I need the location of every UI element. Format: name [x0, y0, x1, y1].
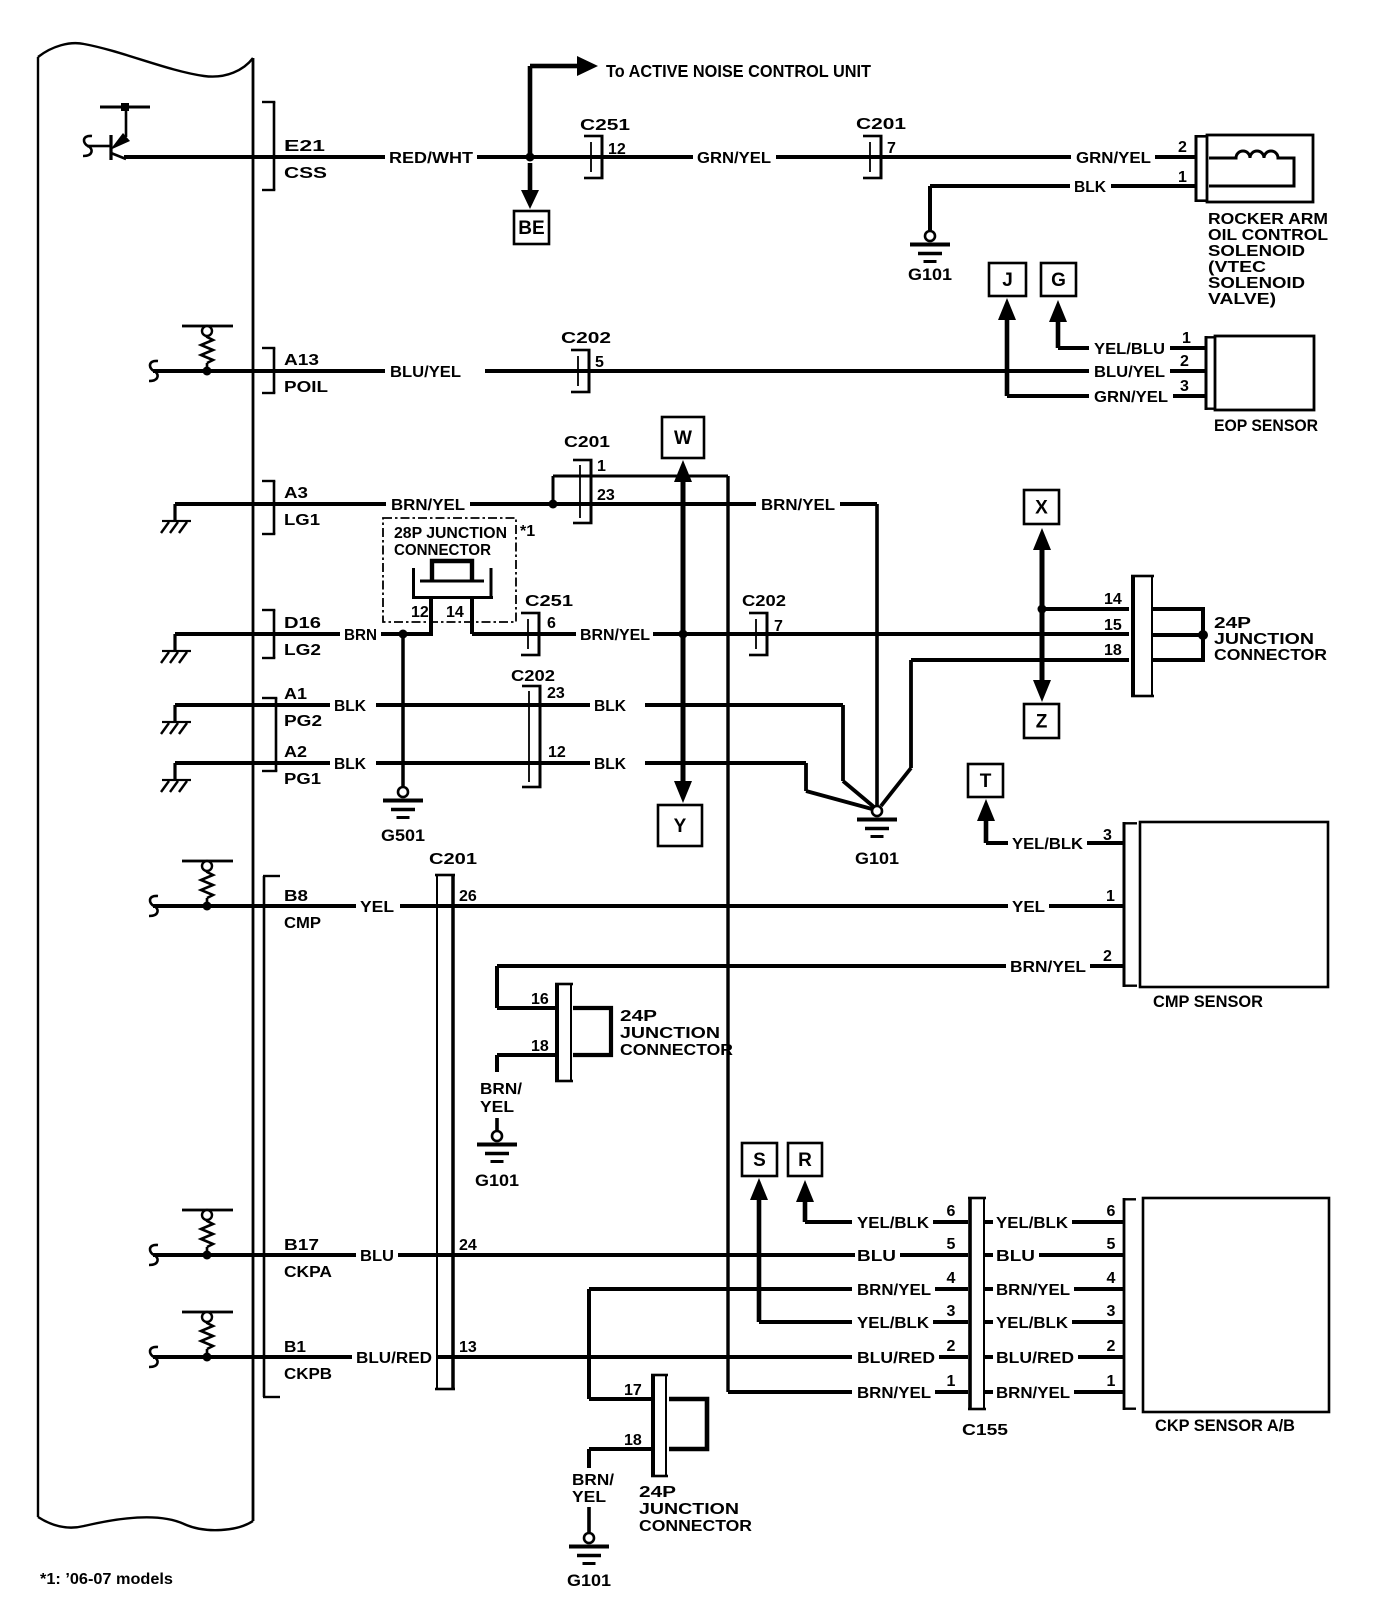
wire BRN/YEL to CMP pin 2 — [497, 959, 1124, 976]
ground G101 (mid) — [475, 1131, 519, 1190]
wire BRN to junction — [381, 632, 433, 636]
svg-text:C201: C201 — [564, 434, 610, 451]
svg-text:LG1: LG1 — [284, 512, 320, 529]
svg-text:1: 1 — [1107, 1373, 1116, 1390]
wire BRN/YEL to corner — [470, 502, 756, 506]
svg-text:3: 3 — [1107, 1303, 1116, 1320]
pin label A2 — [284, 744, 307, 761]
label To ACTIVE NOISE CONTROL UNIT — [606, 61, 871, 81]
svg-text:PG2: PG2 — [284, 713, 322, 730]
wire label BLU/YEL 2 — [1094, 364, 1165, 381]
pin number 15 (24P) — [1104, 617, 1122, 634]
pin number 18 (24P) — [1104, 642, 1122, 659]
pin number 23 (C202) — [547, 685, 565, 702]
wire B1 BLU/RED — [153, 1355, 352, 1359]
svg-text:EOP SENSOR: EOP SENSOR — [1214, 416, 1318, 435]
pin label A1 — [284, 686, 307, 703]
wire D16 BRN — [253, 632, 340, 636]
svg-text:GRN/YEL: GRN/YEL — [1076, 150, 1151, 167]
svg-text:JUNCTION: JUNCTION — [1214, 631, 1314, 648]
svg-text:CONNECTOR: CONNECTOR — [394, 542, 491, 559]
wire label YEL/BLU — [1094, 341, 1165, 358]
svg-text:1: 1 — [1182, 330, 1191, 347]
wire BRN/YEL to G101 drop — [840, 502, 879, 806]
rocker arm oil control solenoid connector — [1195, 135, 1208, 202]
svg-text:BRN: BRN — [344, 627, 377, 644]
svg-text:CONNECTOR: CONNECTOR — [1214, 647, 1327, 664]
CMP sensor connector — [1123, 822, 1138, 987]
ground G501 — [381, 787, 425, 845]
wire BRN/YEL row1 to C155 — [728, 1390, 852, 1394]
pin label PG2 — [284, 713, 322, 730]
svg-text:BLU: BLU — [996, 1248, 1035, 1265]
footnote *1 06-07 models — [40, 1571, 173, 1588]
svg-text:BLK: BLK — [594, 756, 626, 773]
svg-text:C202: C202 — [742, 593, 786, 610]
svg-text:2: 2 — [1178, 139, 1187, 156]
label 24P JUNCTION CONNECTOR (bottom) — [639, 1484, 752, 1535]
svg-text:1: 1 — [1106, 888, 1115, 905]
connector C202 pin 5 — [571, 349, 591, 394]
wire label BRN/YEL 2 — [761, 497, 835, 514]
wire BRN/YEL row4 corner — [587, 1287, 852, 1399]
wire CMP pin16 drop — [495, 966, 555, 1010]
svg-text:BLK: BLK — [334, 756, 366, 773]
svg-text:BRN/YEL: BRN/YEL — [391, 497, 465, 514]
pin label B8 — [284, 888, 308, 905]
svg-text:*1: ’06-07 models: *1: ’06-07 models — [40, 1571, 173, 1588]
pin label B1 — [284, 1339, 306, 1356]
wire label BRN — [344, 627, 377, 644]
svg-text:BRN/YEL: BRN/YEL — [996, 1282, 1070, 1299]
pin number 23 — [597, 487, 615, 504]
wire pin 14 to 24P junction — [1042, 607, 1129, 611]
24P junction connector (bottom) symbol — [651, 1374, 668, 1478]
svg-text:VALVE): VALVE) — [1208, 291, 1276, 308]
pin label LG2 — [284, 642, 321, 659]
svg-text:2: 2 — [1180, 353, 1189, 370]
svg-text:5: 5 — [1107, 1236, 1116, 1253]
wire GRN/YEL to solenoid pin 2 — [1155, 155, 1197, 159]
arrow up to R — [796, 1180, 814, 1222]
wire A2 BLK to G101 — [594, 756, 872, 809]
svg-text:G101: G101 — [475, 1171, 519, 1190]
wire pin 14 of 28P — [470, 596, 474, 634]
wire label RED/WHT — [389, 150, 473, 167]
svg-text:POIL: POIL — [284, 379, 328, 396]
resistor R4 (CKPB pull-up) — [182, 1311, 233, 1362]
pin number 26 — [459, 888, 477, 905]
solenoid coil L1 — [1209, 151, 1294, 186]
label C202 (D16) — [742, 593, 786, 610]
arrow up to J — [998, 298, 1089, 398]
ground G101 (center) — [855, 806, 899, 868]
wire RED/WHT to C251 — [477, 155, 693, 159]
label C251 (D16) — [525, 593, 573, 610]
svg-text:BLU/RED: BLU/RED — [857, 1350, 935, 1367]
resistor R2 (CMP pull-up) — [182, 860, 233, 911]
solenoid pin number 2 — [1178, 139, 1187, 156]
wire YEL to CMP sensor — [400, 904, 1008, 908]
box W — [662, 417, 704, 458]
svg-text:BLU/RED: BLU/RED — [356, 1350, 432, 1367]
EOP pin number 2 — [1180, 353, 1189, 370]
svg-text:G101: G101 — [908, 265, 952, 284]
svg-text:BLK: BLK — [334, 698, 366, 715]
CKP sensor box — [1143, 1198, 1329, 1412]
pin number 7 (C202) — [774, 618, 783, 635]
svg-text:C201: C201 — [856, 116, 906, 133]
wire break squiggle B1 — [149, 1347, 158, 1367]
pin number 18 (bottom) — [624, 1432, 642, 1449]
junction node X line pin14 — [1038, 605, 1047, 614]
svg-text:YEL: YEL — [1012, 899, 1045, 916]
wire GRN/YEL label 1 — [697, 150, 771, 167]
svg-text:4: 4 — [947, 1270, 956, 1287]
ground G101 (bottom) — [567, 1533, 611, 1590]
label EOP SENSOR — [1214, 416, 1318, 435]
wire BRN/YEL vertical to C155 pin 1 — [726, 476, 729, 1392]
pin number 6 — [547, 615, 556, 632]
pin number 17 (bottom) — [624, 1382, 642, 1399]
junction node W line — [679, 630, 688, 639]
svg-text:7: 7 — [887, 140, 896, 157]
svg-text:14: 14 — [1104, 591, 1122, 608]
24P junction connector (right) symbol — [1131, 575, 1154, 698]
svg-text:BE: BE — [518, 218, 544, 239]
wire A1 BLK — [253, 698, 590, 715]
pin label CKPB — [284, 1366, 332, 1383]
wire GRN/YEL label 2 — [1076, 150, 1151, 167]
pin label POIL — [284, 379, 328, 396]
svg-text:BLU/RED: BLU/RED — [996, 1350, 1074, 1367]
wire BLK from solenoid pin 1 — [928, 179, 1197, 231]
svg-text:Z: Z — [1036, 712, 1048, 733]
label 28P JUNCTION CONNECTOR — [394, 525, 507, 559]
wire BLU/YEL to EOP — [485, 369, 1089, 373]
svg-text:YEL/BLK: YEL/BLK — [857, 1315, 929, 1332]
wire label GRN/YEL 3 — [1094, 389, 1168, 406]
box Z — [1024, 704, 1059, 738]
label C201 (A3) — [564, 434, 610, 451]
wire BLU/RED to C155 — [436, 1355, 852, 1359]
svg-text:A1: A1 — [284, 686, 307, 703]
svg-text:BLK: BLK — [594, 698, 626, 715]
svg-text:PG1: PG1 — [284, 771, 321, 788]
svg-text:18: 18 — [624, 1432, 642, 1449]
svg-text:BRN/YEL: BRN/YEL — [996, 1385, 1070, 1402]
EOP pin number 3 — [1180, 378, 1189, 395]
svg-text:(VTEC: (VTEC — [1208, 259, 1267, 276]
CMP pin number 1 — [1106, 888, 1115, 905]
junction node on RED/WHT — [526, 153, 535, 162]
svg-text:23: 23 — [597, 487, 615, 504]
svg-text:18: 18 — [1104, 642, 1122, 659]
label C251 — [580, 117, 630, 134]
svg-text:2: 2 — [1103, 948, 1112, 965]
svg-text:GRN/YEL: GRN/YEL — [697, 150, 771, 167]
arrow up to T — [977, 799, 1008, 845]
svg-text:To ACTIVE NOISE CONTROL UNIT: To ACTIVE NOISE CONTROL UNIT — [606, 61, 871, 81]
svg-text:GRN/YEL: GRN/YEL — [1094, 389, 1168, 406]
connector C201 (tall) — [435, 874, 455, 1391]
connector C201 pins 1/23 — [573, 459, 593, 525]
svg-text:3: 3 — [1103, 827, 1112, 844]
svg-text:B1: B1 — [284, 1339, 306, 1356]
arrow up to G — [1049, 300, 1089, 350]
pin number 24 — [459, 1237, 477, 1254]
CKP sensor connector — [1123, 1198, 1136, 1410]
svg-text:CKPB: CKPB — [284, 1366, 332, 1383]
svg-text:YEL: YEL — [572, 1489, 606, 1506]
svg-text:BRN/YEL: BRN/YEL — [1010, 959, 1086, 976]
pin number 7 — [887, 140, 896, 157]
wire break squiggle A13 — [149, 361, 158, 381]
svg-text:24P: 24P — [1214, 615, 1251, 632]
svg-text:23: 23 — [547, 685, 565, 702]
svg-text:16: 16 — [531, 991, 549, 1008]
wire pin 12 of 28P — [429, 596, 433, 634]
connector pin A3/LG1 bracket — [262, 480, 275, 535]
pin label CSS — [284, 165, 327, 182]
label C201 (tall) — [429, 851, 477, 868]
ECM internal ground A2 — [161, 761, 253, 792]
wire GRN/YEL C251 to C201 — [776, 155, 1071, 159]
C155 right side labels and stubs — [984, 1203, 1124, 1402]
svg-text:2: 2 — [1107, 1338, 1116, 1355]
pin label A3 — [284, 485, 308, 502]
connector C251 pin 6 — [521, 612, 541, 657]
svg-text:YEL/BLK: YEL/BLK — [996, 1315, 1068, 1332]
svg-text:12: 12 — [608, 141, 626, 158]
pin label PG1 — [284, 771, 321, 788]
wire label YEL/BLK (T) — [1012, 836, 1083, 853]
svg-text:3: 3 — [1180, 378, 1189, 395]
pin number 12 (C202) — [548, 744, 566, 761]
wire break squiggle B17 — [149, 1245, 158, 1265]
wire label YEL — [360, 899, 394, 916]
svg-text:Y: Y — [674, 816, 687, 837]
svg-text:1: 1 — [947, 1373, 956, 1390]
svg-text:CKP SENSOR A/B: CKP SENSOR A/B — [1155, 1416, 1295, 1435]
svg-text:S: S — [753, 1150, 766, 1171]
wire break squiggle B8 — [149, 896, 158, 916]
resistor R3 (CKPA pull-up) — [182, 1209, 233, 1260]
C155 left side labels and stubs — [857, 1203, 968, 1402]
wire pin 18 (mid) to ground — [495, 1053, 555, 1072]
svg-text:YEL/BLU: YEL/BLU — [1094, 341, 1165, 358]
svg-text:R: R — [798, 1150, 812, 1171]
svg-text:YEL/BLK: YEL/BLK — [857, 1215, 929, 1232]
svg-text:1: 1 — [597, 458, 606, 475]
svg-text:B8: B8 — [284, 888, 308, 905]
wire BRN/YEL to 24P pin 15 — [653, 632, 1129, 636]
junction node D16/G501 — [399, 630, 408, 639]
wire label BLU/RED — [356, 1350, 432, 1367]
pin number 12 (28P) — [411, 604, 429, 621]
wire A13 BLU/YEL — [153, 369, 385, 373]
svg-text:12: 12 — [411, 604, 429, 621]
28P junction connector dashed box — [383, 518, 516, 622]
svg-text:*1: *1 — [520, 523, 535, 540]
svg-text:6: 6 — [547, 615, 556, 632]
connector pin D16/LG2 bracket — [262, 609, 275, 659]
ECM left border — [37, 57, 39, 1517]
svg-text:BRN/YEL: BRN/YEL — [580, 627, 650, 644]
svg-text:13: 13 — [459, 1339, 477, 1356]
svg-text:1: 1 — [1178, 169, 1187, 186]
wire YEL/BLU to EOP pin 1 — [1170, 346, 1206, 350]
svg-text:28P JUNCTION: 28P JUNCTION — [394, 525, 507, 542]
svg-text:YEL: YEL — [480, 1099, 514, 1116]
ECM right boundary — [252, 58, 255, 1521]
24P junction connector (mid) symbol — [555, 983, 573, 1083]
label C202 (A1/A2) — [511, 668, 555, 685]
svg-text:JUNCTION: JUNCTION — [639, 1501, 739, 1518]
pin number 14 (28P) — [446, 604, 464, 621]
connector C202 pin 7 — [749, 612, 769, 657]
resistor R1 (POIL pull-up) — [182, 325, 233, 376]
wire label BRN/YEL (bottom) — [572, 1472, 615, 1506]
wire to G101 (mid) — [495, 1118, 499, 1132]
junction node A3 branch — [549, 500, 558, 509]
svg-text:C251: C251 — [525, 593, 573, 610]
svg-text:W: W — [674, 428, 692, 449]
svg-text:C155: C155 — [962, 1422, 1008, 1439]
svg-text:24P: 24P — [639, 1484, 676, 1501]
svg-text:CMP SENSOR: CMP SENSOR — [1153, 992, 1263, 1011]
svg-text:4: 4 — [1107, 1270, 1116, 1287]
svg-text:CKPA: CKPA — [284, 1264, 332, 1281]
wire B8 YEL — [153, 904, 356, 908]
ground G101 (solenoid) — [908, 231, 952, 284]
wire E21 to RED/WHT label — [124, 155, 385, 159]
label CKP SENSOR A/B — [1155, 1416, 1295, 1435]
connector pin A13/POIL bracket — [262, 347, 275, 394]
svg-text:24: 24 — [459, 1237, 477, 1254]
svg-text:26: 26 — [459, 888, 477, 905]
svg-text:BRN/YEL: BRN/YEL — [761, 497, 835, 514]
wire to G501 — [401, 634, 405, 787]
svg-text:6: 6 — [1107, 1203, 1116, 1220]
svg-text:T: T — [980, 771, 992, 792]
box G — [1041, 263, 1076, 296]
svg-text:G501: G501 — [381, 826, 425, 845]
arrow up to S — [750, 1178, 768, 1322]
svg-text:C201: C201 — [429, 851, 477, 868]
ECM internal ground A3 — [161, 502, 253, 533]
EOP sensor connector — [1205, 336, 1216, 410]
box R — [788, 1143, 822, 1176]
wire pin14 to C251 — [472, 632, 576, 636]
arrow line W to Y — [674, 460, 692, 803]
svg-text:6: 6 — [947, 1203, 956, 1220]
pin number 16 (mid 24P) — [531, 991, 549, 1008]
CMP sensor box — [1140, 822, 1328, 987]
svg-text:G101: G101 — [855, 849, 899, 868]
wire label BRN/YEL (mid ground) — [480, 1081, 523, 1116]
svg-text:C202: C202 — [511, 668, 555, 685]
label ROCKER ARM OIL CONTROL SOLENOID (VTEC SOLENOID VALVE) — [1208, 211, 1328, 308]
ECM top torn edge — [38, 43, 253, 76]
wire A2 BLK — [253, 756, 590, 773]
wire A3 BRN/YEL — [253, 502, 386, 506]
svg-text:BRN/: BRN/ — [480, 1081, 523, 1098]
svg-text:C202: C202 — [561, 330, 611, 347]
wire label BLU/YEL — [390, 364, 461, 381]
pin number 13 — [459, 1339, 477, 1356]
24P junction mid jumper — [573, 1008, 611, 1055]
svg-text:5: 5 — [947, 1236, 956, 1253]
ECM internal ground A1 — [161, 703, 253, 734]
wire YEL to CMP pin 1 — [1049, 904, 1124, 908]
28P junction connector symbol — [412, 561, 493, 599]
label *1 — [520, 523, 535, 540]
svg-text:18: 18 — [531, 1038, 549, 1055]
box T — [968, 764, 1003, 797]
svg-text:CSS: CSS — [284, 165, 327, 182]
ECM bottom torn edge — [38, 1517, 253, 1530]
svg-text:A13: A13 — [284, 352, 319, 369]
label 24P JUNCTION CONNECTOR (mid) — [620, 1008, 733, 1059]
svg-text:CMP: CMP — [284, 915, 321, 932]
connector C251 pin 12 — [584, 135, 604, 180]
pin number 1 — [597, 458, 606, 475]
connector pins A1/A2 bracket — [262, 697, 277, 772]
svg-text:X: X — [1035, 498, 1048, 519]
pin label B17 — [284, 1237, 319, 1254]
wire pin 18 (bottom 24P) — [587, 1447, 655, 1468]
arrow line X to Z — [1033, 528, 1051, 702]
pin label D16 — [284, 615, 321, 632]
svg-text:CONNECTOR: CONNECTOR — [639, 1518, 752, 1535]
svg-text:5: 5 — [595, 354, 604, 371]
svg-text:12: 12 — [548, 744, 566, 761]
svg-text:24P: 24P — [620, 1008, 657, 1025]
svg-text:SOLENOID: SOLENOID — [1208, 243, 1305, 260]
svg-text:G101: G101 — [567, 1571, 611, 1590]
svg-text:LG2: LG2 — [284, 642, 321, 659]
wire B17 BLU — [153, 1253, 356, 1257]
wire label BRN/YEL 5 — [580, 627, 650, 644]
CMP pin number 3 — [1103, 827, 1112, 844]
rocker arm oil control solenoid box — [1207, 135, 1313, 202]
svg-text:BRN/YEL: BRN/YEL — [857, 1282, 931, 1299]
wire A1 BLK to G101 — [594, 698, 874, 807]
svg-text:A2: A2 — [284, 744, 307, 761]
svg-text:3: 3 — [947, 1303, 956, 1320]
svg-text:14: 14 — [446, 604, 464, 621]
wire YEL/BLK row3 to C155 — [759, 1320, 852, 1324]
svg-text:7: 7 — [774, 618, 783, 635]
svg-text:CONNECTOR: CONNECTOR — [620, 1042, 733, 1059]
svg-text:ROCKER ARM: ROCKER ARM — [1208, 211, 1328, 228]
box BE — [514, 211, 549, 244]
connector pin E21/CSS bracket — [262, 101, 275, 191]
box J — [989, 263, 1026, 296]
wire YEL/BLK row6 to C155 — [805, 1220, 852, 1224]
svg-text:D16: D16 — [284, 615, 321, 632]
wire BLU/YEL to EOP pin 2 — [1170, 369, 1206, 373]
svg-text:C251: C251 — [580, 117, 630, 134]
pin label E21 — [284, 138, 325, 155]
pin number 12 — [608, 141, 626, 158]
24P junction bottom jumper — [669, 1399, 707, 1449]
EOP sensor box — [1215, 336, 1314, 410]
wire label BLU — [360, 1248, 394, 1265]
solenoid pin number 1 — [1178, 169, 1187, 186]
svg-text:17: 17 — [624, 1382, 642, 1399]
